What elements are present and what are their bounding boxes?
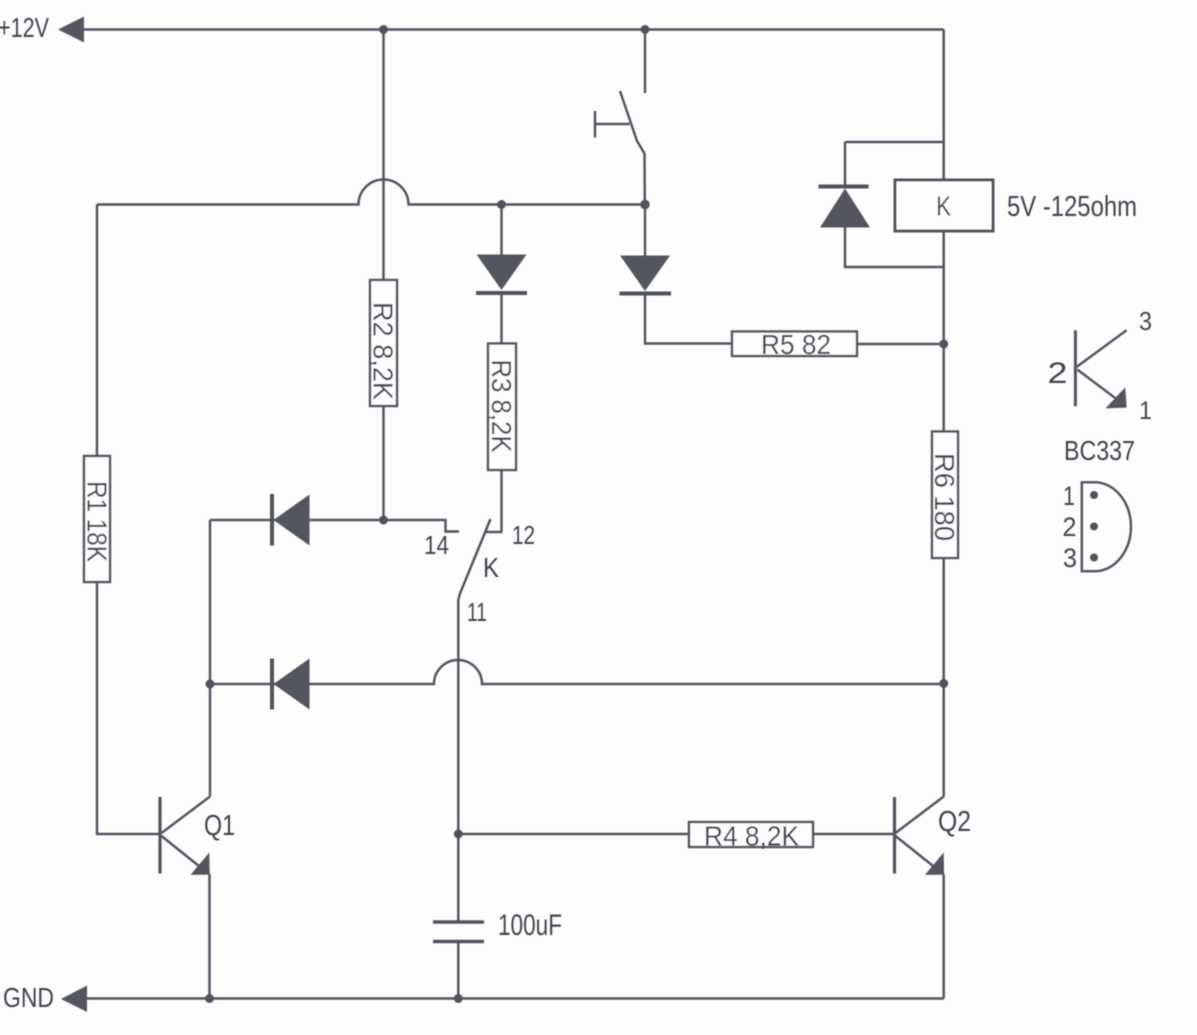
diode D2 triangle (upper left row)	[274, 495, 310, 546]
wire horizontal row y=204 with hop over R2 wire	[97, 179, 645, 204]
wire node y=204 down to diode D4	[500, 205, 502, 255]
svg-text:R4 8,2K: R4 8,2K	[704, 821, 799, 852]
wire D4 bottom to R3 top	[500, 293, 502, 344]
wire R4 row from center vertical to Q2 base	[458, 833, 893, 835]
+12V arrow	[58, 17, 84, 43]
resistor R6 body	[932, 432, 958, 559]
BC337 symbol emitter arrowhead	[1106, 387, 1127, 408]
junction node R2 bottom	[379, 516, 388, 525]
diode D3 cathode bar	[270, 659, 274, 710]
diode D3 triangle (lower left row)	[274, 659, 310, 710]
svg-text:1: 1	[1139, 397, 1152, 425]
wire R2 branch from top rail	[382, 30, 384, 281]
svg-text:1: 1	[1063, 481, 1075, 511]
BC337 TO-92 pin dot 2	[1090, 523, 1098, 531]
svg-text:R3 8,2K: R3 8,2K	[486, 360, 517, 453]
wire R2 bottom to node row y=520	[382, 406, 384, 520]
diode D2 cathode bar	[270, 494, 274, 546]
diode D1 cathode bar	[620, 292, 672, 296]
junction node R5 / right vertical	[939, 340, 948, 349]
wire switch node down to diode D1	[644, 205, 646, 256]
BC337 symbol base bar	[1074, 330, 1077, 406]
junction node row204 / switch	[640, 200, 650, 210]
junction node R4 row / center vertical	[454, 830, 463, 839]
wire switch branch down from top rail	[644, 30, 646, 94]
junction node row204 / D4	[497, 200, 506, 209]
relay flyback branch top	[845, 142, 944, 187]
wire right vertical R6 to Q2 collector	[942, 558, 944, 797]
wire left loop: R1 top from node row y=204	[96, 205, 98, 457]
relay contact 12 bar	[486, 531, 503, 533]
wire R5 right to right vertical	[857, 343, 944, 345]
junction node capacitor / GND rail	[454, 994, 463, 1003]
resistor R5 body	[732, 332, 857, 357]
svg-text:+12V: +12V	[0, 12, 49, 43]
wire right vertical Q2 emitter to GND rail	[942, 875, 944, 999]
svg-text:GND: GND	[3, 982, 54, 1013]
transistor Q2 collector	[896, 797, 944, 834]
BC337 TO-92 package outline	[1082, 482, 1131, 571]
junction node left vertical / row684	[206, 680, 215, 689]
wire Q1 emitter to GND rail	[208, 875, 210, 999]
svg-text:3: 3	[1063, 543, 1077, 573]
wire D1 bottom elbow to R5	[645, 294, 732, 344]
pushbutton S1 blade	[620, 91, 645, 205]
wire right vertical relay bottom to R6	[942, 231, 944, 432]
svg-text:3: 3	[1139, 306, 1152, 336]
transistor Q2 base bar	[893, 797, 896, 874]
svg-text:R2 8,2K: R2 8,2K	[368, 302, 399, 400]
svg-text:K: K	[483, 552, 499, 583]
svg-text:2: 2	[1048, 357, 1068, 390]
transistor Q2 emitter arrowhead	[925, 853, 944, 875]
svg-text:R5 82: R5 82	[761, 329, 831, 360]
GND arrow	[61, 986, 87, 1013]
transistor Q1 emitter	[162, 836, 210, 875]
relay K coil box	[895, 180, 993, 231]
BC337 symbol emitter	[1077, 370, 1117, 400]
wire top +12V rail	[84, 28, 944, 30]
relay contact K blade	[458, 519, 490, 922]
pushbutton S1 actuator	[595, 111, 630, 138]
svg-text:11: 11	[467, 597, 487, 627]
BC337 symbol collector	[1077, 330, 1127, 367]
wire right vertical from +12V rail to relay	[942, 30, 944, 181]
junction node row684 / right vertical	[939, 679, 948, 688]
wire lower diode row y=684 with hop over center vertical	[210, 660, 944, 684]
wire R3 bottom to relay contact 12	[500, 470, 502, 532]
resistor R2 body	[370, 280, 397, 406]
svg-text:5V -125ohm: 5V -125ohm	[1007, 191, 1137, 223]
svg-text:K: K	[936, 191, 951, 222]
svg-text:Q1: Q1	[204, 810, 235, 842]
transistor Q1 emitter arrowhead	[191, 853, 210, 875]
diode D1 triangle (below switch)	[620, 256, 670, 292]
wire capacitor bottom to GND rail	[457, 942, 459, 999]
transistor Q1 collector	[162, 797, 211, 834]
relay flyback branch bottom	[845, 228, 944, 268]
wire GND bottom rail	[87, 997, 944, 999]
svg-text:R6 180: R6 180	[929, 453, 960, 541]
svg-text:Q2: Q2	[938, 806, 971, 838]
resistor R1 body	[84, 456, 110, 582]
wire R1 bottom to Q1 base row	[97, 582, 159, 834]
resistor R4 body	[689, 822, 813, 847]
resistor R3 body	[488, 344, 516, 471]
junction node top rail / switch	[641, 25, 650, 34]
junction node Q1 emitter / GND rail	[205, 994, 214, 1003]
capacitor C1 plates	[433, 922, 484, 942]
wire upper diode row y=520 to relay contact 14	[210, 520, 459, 532]
wire left vertical x=210 down to Q1 collector	[209, 520, 211, 797]
svg-text:R1 18K: R1 18K	[81, 481, 112, 562]
transistor Q1 base bar	[158, 797, 161, 874]
svg-text:BC337: BC337	[1064, 435, 1135, 466]
diode D5 cathode bar	[819, 185, 869, 189]
junction node top rail / R2	[379, 25, 388, 34]
diode D5 flyback triangle (points up)	[820, 189, 870, 228]
svg-text:12: 12	[512, 520, 535, 550]
svg-text:100uF: 100uF	[498, 909, 562, 942]
BC337 TO-92 pin dot 1	[1090, 491, 1098, 499]
diode D4 cathode bar	[476, 291, 527, 295]
diode D4 triangle (above R3)	[477, 255, 527, 291]
BC337 TO-92 pin dot 3	[1090, 554, 1098, 562]
svg-text:2: 2	[1063, 512, 1077, 542]
svg-text:14: 14	[424, 530, 449, 560]
transistor Q2 emitter	[896, 836, 944, 875]
